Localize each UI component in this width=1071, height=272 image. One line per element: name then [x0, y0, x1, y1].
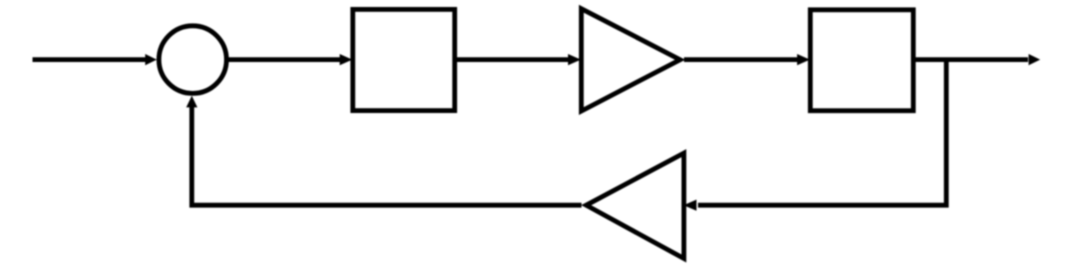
block G1 [353, 9, 455, 110]
amplifier A1 [581, 9, 680, 111]
wire summing junction to block G1 [227, 54, 353, 65]
wire feedback tap from output node down and left to amplifier H1 [684, 60, 947, 211]
wire amplifier H1 to summing junction [186, 96, 581, 205]
wire amplifier A1 to block G2 [684, 54, 810, 65]
wire block G1 to amplifier A1 [457, 54, 581, 65]
block G2 [810, 10, 913, 111]
wire input [33, 54, 157, 65]
amplifier H1 (feedback, pointing left) [586, 153, 684, 258]
wire output [916, 54, 1041, 65]
summing junction node [159, 26, 227, 94]
